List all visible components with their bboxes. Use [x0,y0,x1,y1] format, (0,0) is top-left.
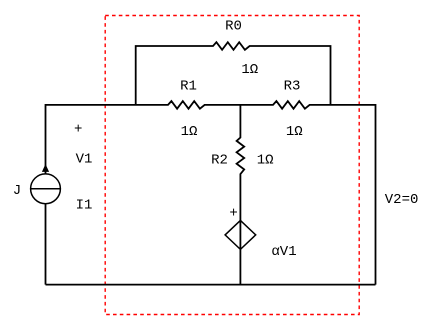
wire: top branch with resistor R0 inline [136,42,331,105]
wire: bottom horizontal [46,284,376,286]
svg-text:R3: R3 [284,78,301,94]
current source J circle [31,174,61,204]
wire: middle vertical branch with resistor R2 inline, through dependent source [237,105,245,285]
wire: left vertical below current source [45,204,47,285]
svg-text:1Ω: 1Ω [286,124,303,140]
svg-text:R0: R0 [225,19,242,35]
svg-text:V1: V1 [76,152,93,168]
svg-text:+: + [74,122,82,138]
wire: left vertical above current source [45,104,47,174]
svg-text:I1: I1 [76,198,93,214]
wire: right vertical branch [375,104,377,285]
subcircuit boundary (red dashed box) [105,16,359,315]
current source J arrow [42,164,49,172]
svg-text:αV1: αV1 [271,244,296,260]
svg-text:+: + [229,206,237,222]
svg-text:R2: R2 [211,153,228,169]
svg-text:J: J [13,183,21,199]
wire: main horizontal node A with resistor R1 and resistor R3 inline [46,101,376,109]
svg-text:1Ω: 1Ω [181,124,198,140]
dependent source aV1 diamond [225,220,256,249]
svg-text:1Ω: 1Ω [257,153,274,169]
svg-text:1Ω: 1Ω [241,62,258,78]
svg-text:R1: R1 [180,78,197,94]
current source J diameter line [31,188,61,190]
svg-text:V2=0: V2=0 [385,192,419,208]
